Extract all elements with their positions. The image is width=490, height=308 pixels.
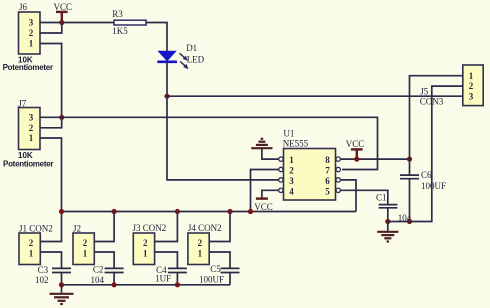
svg-text:2: 2 (29, 238, 34, 248)
svg-text:J6: J6 (19, 2, 28, 12)
connector J2 (73, 223, 94, 264)
svg-text:Potentiometer: Potentiometer (3, 160, 54, 169)
svg-text:J4 CON2: J4 CON2 (188, 223, 222, 233)
wire J4 pin1 to C5 (209, 252, 230, 268)
ground below C1 (377, 222, 398, 242)
connector J5 CON3 (420, 65, 483, 106)
svg-text:102: 102 (35, 275, 49, 285)
wire R3 to LED corner (146, 23, 167, 52)
svg-text:5: 5 (325, 186, 330, 196)
wire J3 pin2 to bus (155, 212, 178, 242)
wire J6 pin3 to R3 (40, 22, 114, 24)
svg-text:VCC: VCC (346, 139, 365, 149)
node VCC pin8 junction (354, 157, 359, 162)
svg-text:NE555: NE555 (283, 139, 309, 149)
IC U1 NE555 (283, 128, 336, 200)
capacitor C1 (376, 193, 412, 224)
connector J6 (3, 2, 54, 72)
node lower bus C2 (112, 282, 117, 287)
svg-text:2: 2 (198, 238, 203, 248)
svg-text:3: 3 (29, 18, 34, 28)
svg-text:1: 1 (29, 39, 34, 49)
wire J7 pin2 up to junction (40, 117, 62, 128)
wire J3 pin1 to C4 (155, 252, 178, 268)
svg-text:7: 7 (325, 166, 330, 176)
wire J6 pin1 down left rail (40, 44, 62, 118)
power VCC at U1 pin8 (346, 139, 365, 159)
wire J5 pin1 down to pin8 node (410, 76, 463, 159)
svg-text:J5: J5 (420, 86, 429, 96)
capacitor C5 (199, 264, 240, 285)
svg-text:J1 CON2: J1 CON2 (19, 223, 53, 233)
node J7 pin3 junction (59, 115, 64, 120)
wire J4 pin2 to bus (209, 212, 230, 242)
svg-text:100UF: 100UF (199, 275, 224, 285)
connector J4 CON2 (188, 223, 222, 264)
node bus U1 pin2 (248, 209, 253, 214)
svg-text:3: 3 (29, 112, 34, 122)
node bus J4 (227, 209, 232, 214)
svg-text:1: 1 (29, 249, 34, 259)
pin circles U1 left (279, 157, 283, 161)
svg-text:C3: C3 (38, 265, 49, 275)
power VCC top (54, 2, 73, 22)
node bus J2 (112, 209, 117, 214)
svg-text:1: 1 (83, 249, 88, 259)
resistor R3 (112, 9, 146, 36)
svg-text:104: 104 (91, 275, 105, 285)
svg-text:2: 2 (29, 28, 34, 38)
wire lower bus (62, 284, 231, 286)
svg-text:2: 2 (29, 123, 34, 133)
svg-text:Potentiometer: Potentiometer (3, 63, 54, 72)
wire upper bus (62, 211, 357, 213)
svg-text:1: 1 (198, 249, 203, 259)
svg-text:C5: C5 (210, 264, 221, 274)
svg-text:C1: C1 (376, 193, 387, 203)
svg-text:1: 1 (469, 71, 474, 81)
capacitor C2 (91, 265, 124, 286)
capacitor C4 (155, 265, 187, 285)
wire J1 pin1 to C3 (40, 252, 61, 268)
svg-text:1: 1 (29, 133, 34, 143)
svg-text:J2: J2 (73, 223, 81, 233)
capacitor C6 (400, 159, 446, 221)
svg-text:U1: U1 (283, 128, 294, 138)
wire J2 pin2 to bus (94, 212, 114, 242)
wire J7 pin3 to U1 pin7 (40, 117, 378, 169)
svg-text:4: 4 (289, 186, 294, 196)
svg-text:2: 2 (143, 238, 148, 248)
node LED junction (164, 94, 169, 99)
svg-text:D1: D1 (186, 43, 197, 53)
wire LED junction to J5 pin3 (167, 95, 463, 97)
wire U1 pin8 to right (340, 158, 409, 160)
svg-text:2: 2 (469, 81, 474, 91)
svg-text:100UF: 100UF (421, 181, 446, 191)
diode D1 LED (157, 43, 204, 69)
svg-text:10K: 10K (18, 151, 33, 160)
svg-text:1UF: 1UF (155, 273, 171, 283)
wire LED cathode down (166, 62, 168, 96)
node C1 bottom junction (385, 219, 390, 224)
node lower bus C4 (175, 282, 180, 287)
pin circles U1 right (336, 157, 340, 161)
svg-text:8: 8 (325, 155, 330, 165)
wire U1 pin2 to bus (251, 170, 279, 212)
node bus left rail (59, 209, 64, 214)
node pin8 C6 junction (407, 157, 412, 162)
svg-text:1: 1 (289, 155, 294, 165)
svg-text:C2: C2 (93, 265, 104, 275)
wire J2 pin1 to C2 (94, 252, 114, 268)
power VCC at U1 pin4 (254, 190, 278, 212)
svg-text:2: 2 (83, 238, 88, 248)
node C6 bottom junction (407, 219, 412, 224)
node lower bus ground (59, 282, 64, 287)
connector J1 CON2 (19, 223, 53, 264)
svg-text:J3 CON2: J3 CON2 (133, 223, 167, 233)
wire C1 junction to J5 pin2 (388, 86, 463, 221)
svg-text:CON3: CON3 (420, 96, 444, 106)
node bus J3 (175, 209, 180, 214)
node VCC junction (59, 20, 64, 25)
svg-text:1: 1 (143, 249, 148, 259)
svg-text:3: 3 (289, 176, 294, 186)
wire J6 pin2 up to junction (40, 23, 62, 34)
connector J3 CON2 (133, 223, 167, 264)
ground bottom left (50, 285, 74, 304)
svg-text:6: 6 (325, 176, 330, 186)
wire LED junction down to U1 pin3 (167, 96, 279, 180)
svg-text:2: 2 (289, 166, 294, 176)
svg-text:LED: LED (187, 55, 205, 65)
svg-text:R3: R3 (112, 9, 123, 19)
wire U1 pin6 to bus corner (340, 180, 356, 212)
wire J7 pin1 down to J1 pin2 (40, 138, 62, 242)
svg-text:C6: C6 (421, 170, 432, 180)
ground above U1 pin1 (251, 139, 278, 159)
capacitor C3 (35, 265, 71, 285)
connector J7 (3, 99, 54, 169)
wire U1 pin5 to C1 (340, 190, 387, 204)
svg-text:1K5: 1K5 (112, 26, 128, 36)
svg-text:3: 3 (469, 92, 474, 102)
